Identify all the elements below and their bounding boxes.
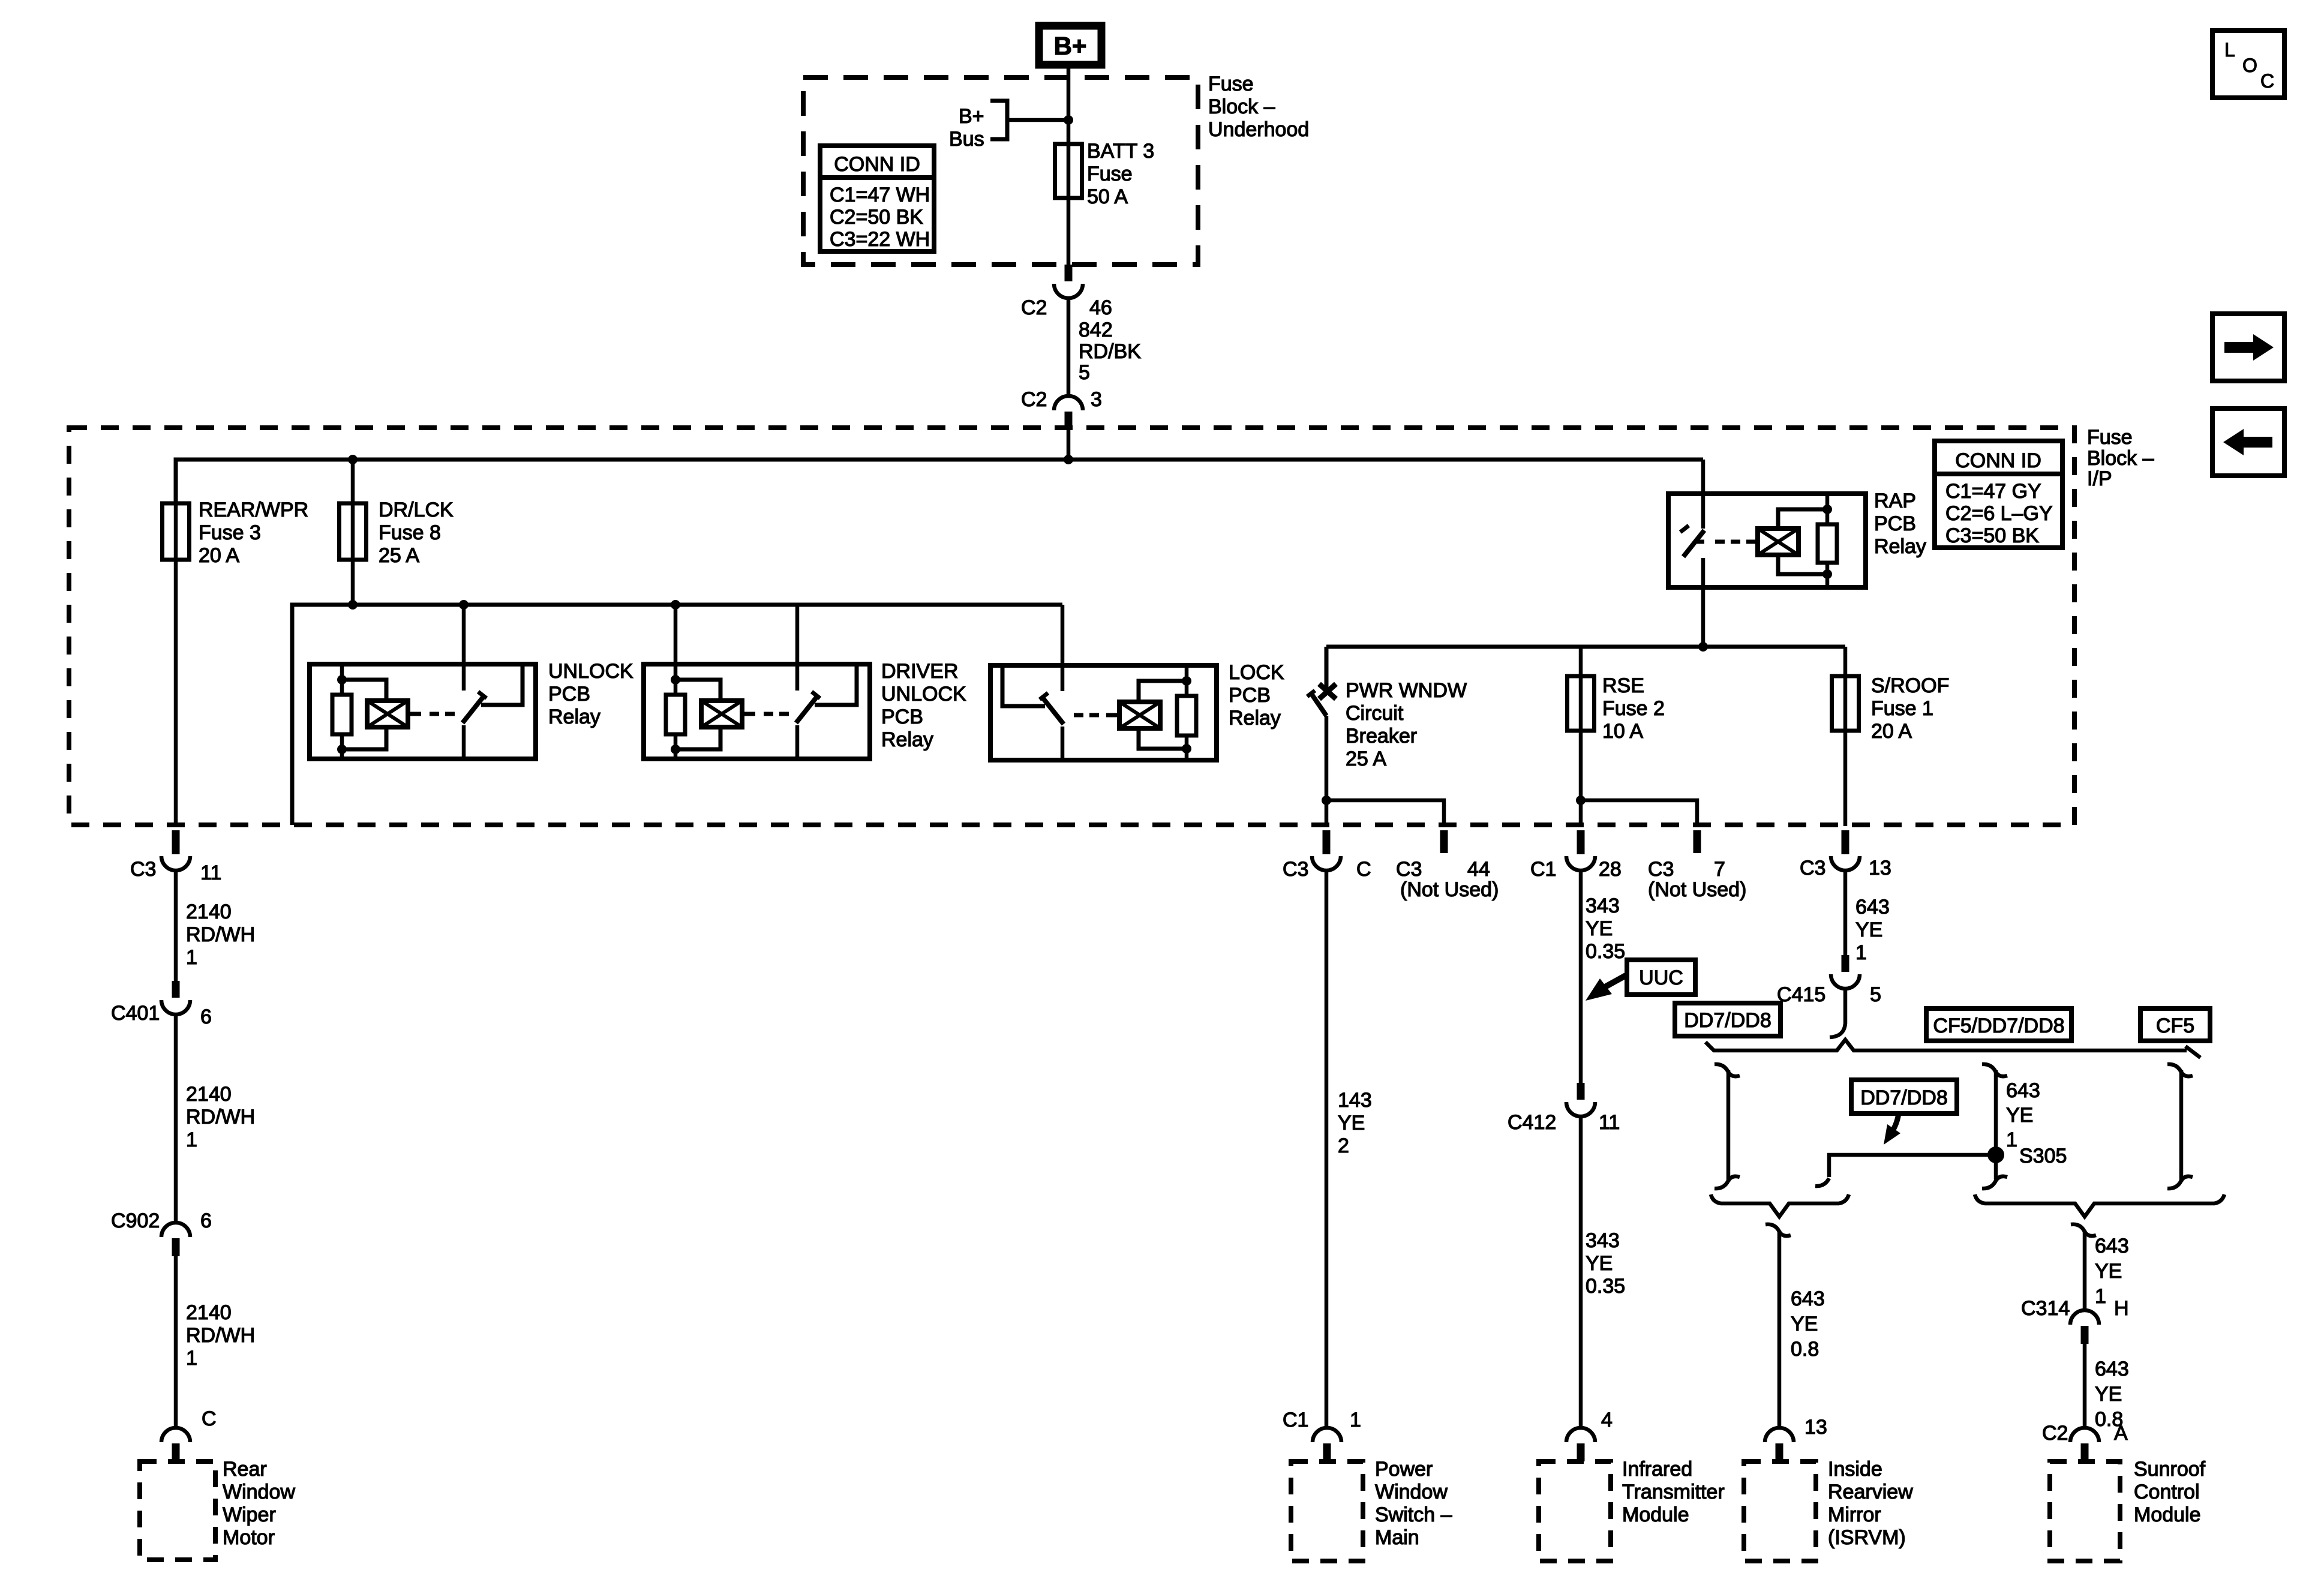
wire 143 YE 2	[1325, 870, 1329, 1428]
wire LOCK switch output to box edge	[1002, 668, 1045, 706]
svg-text:4: 4	[1601, 1409, 1613, 1431]
wire trunk into I/P bus	[1067, 428, 1071, 460]
wire 643 YE 1	[1843, 870, 1848, 955]
svg-text:C401: C401	[111, 1002, 160, 1025]
fuse block underhood dashed outline	[803, 77, 1198, 265]
connector C1 pin 1 (module cap + stub)	[1313, 1428, 1341, 1461]
mechanical link dashes LOCK	[1074, 713, 1083, 718]
wire UNLOCK resistor bottom	[340, 734, 344, 759]
svg-text:Window: Window	[223, 1481, 295, 1503]
svg-text:RSE: RSE	[1602, 674, 1644, 697]
connector C902 pin 6 (cap + stub)	[161, 1223, 190, 1256]
svg-text:0.35: 0.35	[1586, 940, 1625, 963]
splice S305	[1987, 1146, 2004, 1163]
connector pin 13 (module cap + stub)	[1765, 1428, 1794, 1461]
option tag DD7/DD8 left box	[1675, 1003, 1780, 1036]
svg-text:YE: YE	[2095, 1260, 2122, 1283]
svg-text:Module: Module	[1622, 1503, 1689, 1526]
svg-text:2140: 2140	[186, 1083, 232, 1106]
wire 643 YE 0.8 sunroof	[2083, 1344, 2087, 1428]
svg-text:28: 28	[1599, 858, 1622, 881]
fuse RSE Fuse 2 10A	[1568, 676, 1595, 731]
svg-text:PCB: PCB	[1229, 684, 1271, 707]
svg-text:2140: 2140	[186, 1301, 232, 1324]
svg-text:0.35: 0.35	[1586, 1275, 1625, 1298]
svg-text:Fuse 3: Fuse 3	[199, 521, 261, 544]
svg-text:Relay: Relay	[1229, 707, 1281, 730]
svg-text:CF5: CF5	[2156, 1014, 2194, 1037]
coil UNLOCK relay	[367, 701, 408, 727]
svg-text:BATT 3: BATT 3	[1087, 140, 1154, 163]
relay DRIVER UNLOCK box	[644, 664, 870, 759]
connector C2 pin 3 (female cap + male stub)	[1054, 396, 1083, 428]
svg-text:Fuse 8: Fuse 8	[379, 521, 441, 544]
svg-text:Fuse: Fuse	[1208, 73, 1254, 95]
node LOCK coil bottom	[1182, 744, 1191, 754]
svg-text:C1=47 GY: C1=47 GY	[1945, 480, 2041, 503]
svg-text:O: O	[2242, 55, 2257, 76]
svg-text:PCB: PCB	[1874, 512, 1916, 535]
connector C415 pin 5 (stub + cup)	[1831, 955, 1860, 989]
svg-text:Inside: Inside	[1828, 1458, 1882, 1481]
svg-text:Block –: Block –	[2087, 447, 2154, 470]
svg-text:Relay: Relay	[881, 728, 933, 751]
svg-text:643: 643	[2095, 1358, 2129, 1380]
svg-text:Fuse 1: Fuse 1	[1871, 697, 1933, 720]
svg-text:C2=50 BK: C2=50 BK	[830, 206, 923, 229]
svg-text:YE: YE	[1791, 1313, 1818, 1335]
svg-text:5: 5	[1079, 361, 1090, 384]
svg-text:DD7/DD8: DD7/DD8	[1860, 1086, 1947, 1109]
fuse S/ROOF Fuse 1 20A	[1832, 676, 1859, 731]
wire DRIVER UNLOCK resistor bottom	[674, 734, 678, 759]
svg-text:Bus: Bus	[949, 128, 984, 151]
svg-text:Rearview: Rearview	[1828, 1481, 1913, 1503]
svg-text:C1: C1	[1283, 1409, 1308, 1431]
svg-text:Fuse: Fuse	[1087, 163, 1133, 185]
svg-text:2: 2	[1338, 1134, 1349, 1157]
wire B+ box to BATT 3 fuse	[1067, 68, 1071, 265]
svg-text:1: 1	[186, 1347, 197, 1370]
option tag CF5/DD7/DD8 box	[1926, 1008, 2071, 1041]
wire 343 YE 0.35 lower	[1579, 1116, 1583, 1428]
connector C412 pin 11 (stub + cup)	[1566, 1083, 1595, 1116]
switch RAP relay	[1680, 460, 1704, 647]
svg-text:YE: YE	[1338, 1112, 1365, 1134]
svg-text:S/ROOF: S/ROOF	[1871, 674, 1949, 697]
resistor RAP relay	[1818, 524, 1837, 563]
svg-text:Relay: Relay	[548, 706, 600, 728]
svg-text:13: 13	[1869, 857, 1891, 879]
wire bus to RSE fuse	[1579, 647, 1583, 826]
connector C3 pin 11 cup	[161, 856, 190, 870]
wire UNLOCK coil bottom loop	[342, 727, 386, 749]
node RAP coil bottom	[1822, 569, 1832, 579]
connector C401 pin 6 (stub + cup)	[161, 981, 190, 1014]
node junction B+ bus / trunk	[1064, 115, 1073, 125]
node RAP output junction	[1698, 642, 1708, 652]
connector C2 pin A (module cap + stub)	[2070, 1428, 2099, 1461]
wire RAP coil top loop	[1778, 509, 1827, 529]
svg-text:UNLOCK: UNLOCK	[881, 683, 966, 706]
svg-text:C412: C412	[1508, 1111, 1556, 1134]
UUC arrow	[1586, 975, 1626, 1001]
svg-text:Wiper: Wiper	[223, 1503, 276, 1526]
svg-text:1: 1	[186, 1128, 197, 1151]
CONN ID table (underhood)	[820, 146, 934, 251]
svg-text:Breaker: Breaker	[1346, 725, 1417, 748]
svg-text:C: C	[202, 1407, 217, 1430]
option split top brace	[1706, 1040, 2200, 1058]
svg-text:50 A: 50 A	[1087, 185, 1128, 208]
wire 2140 RD/WH 1 first	[174, 870, 178, 981]
option tag CF5 box	[2140, 1008, 2210, 1041]
LOC legend box	[2212, 31, 2284, 98]
svg-text:Module: Module	[2134, 1503, 2201, 1526]
svg-text:Infrared: Infrared	[1622, 1458, 1692, 1481]
svg-text:643: 643	[1855, 896, 1890, 918]
connector C314 pin H (cap + stub)	[2070, 1310, 2099, 1344]
svg-text:7: 7	[1714, 858, 1725, 881]
wire branch to C3 44 not used	[1326, 800, 1444, 827]
DD7/DD8 callout arrow	[1884, 1113, 1900, 1145]
svg-text:Sunroof: Sunroof	[2134, 1458, 2206, 1481]
svg-text:11: 11	[200, 861, 221, 884]
svg-text:DR/LCK: DR/LCK	[379, 499, 454, 521]
switch LOCK relay	[1040, 605, 1064, 760]
svg-text:C3: C3	[1283, 858, 1308, 881]
svg-text:B+: B+	[959, 105, 984, 128]
svg-text:643: 643	[2095, 1235, 2129, 1257]
mechanical link dashes DRIVER UNLOCK	[764, 712, 773, 716]
svg-text:UNLOCK: UNLOCK	[548, 660, 633, 683]
connector C3 pin 13 cup	[1831, 856, 1860, 870]
node DR/LCK to relay bus	[348, 600, 358, 610]
Rear Window Wiper Motor module box	[140, 1461, 215, 1560]
svg-text:842: 842	[1079, 319, 1113, 341]
svg-text:Transmitter: Transmitter	[1622, 1481, 1725, 1503]
svg-text:CONN ID: CONN ID	[834, 153, 920, 176]
RAP output bus wire	[1326, 645, 1845, 649]
wire UNLOCK coil top loop	[342, 680, 386, 701]
Infrared Transmitter Module box	[1539, 1461, 1611, 1561]
svg-text:343: 343	[1586, 894, 1620, 917]
connector C1 pin 28 exit stub	[1577, 830, 1585, 854]
wire DRIVER UNLOCK switch output to box edge	[815, 667, 857, 705]
node DRIVER UNLOCK coil tap	[671, 600, 680, 610]
svg-text:YE: YE	[1586, 917, 1613, 940]
arrow previous page icon	[2212, 409, 2284, 476]
svg-text:RD/WH: RD/WH	[186, 1324, 255, 1347]
relay RAP box	[1668, 494, 1866, 587]
node RAP coil top	[1822, 505, 1832, 514]
wire S305 to left branch	[1815, 1155, 1996, 1186]
svg-text:RAP: RAP	[1874, 490, 1916, 512]
LOCK resistor feed from box top	[1185, 665, 1189, 696]
svg-text:Main: Main	[1375, 1526, 1419, 1549]
fuse DR/LCK Fuse 8 25A	[340, 503, 367, 560]
wire RAP coil armature lead	[1746, 540, 1758, 544]
svg-text:DRIVER: DRIVER	[881, 660, 958, 683]
svg-text:C1: C1	[1530, 858, 1556, 881]
wire UNLOCK switch output to box edge	[481, 667, 523, 705]
svg-text:25 A: 25 A	[379, 544, 419, 567]
wire LOCK coil bottom loop	[1139, 728, 1187, 749]
svg-text:C2=6 L–GY: C2=6 L–GY	[1945, 502, 2053, 525]
svg-text:I/P: I/P	[2087, 467, 2112, 490]
svg-text:C3: C3	[1396, 858, 1422, 881]
option branch middle vertical 643 YE 1	[1982, 1064, 2007, 1188]
resistor UNLOCK relay	[332, 695, 352, 734]
circuit breaker PWR WNDW 25A	[1307, 647, 1336, 826]
svg-text:643: 643	[2006, 1079, 2040, 1102]
svg-text:C3: C3	[1648, 858, 1674, 881]
svg-text:C902: C902	[111, 1209, 160, 1232]
node PWR WNDW branch	[1322, 795, 1331, 805]
wire LOCK resistor bottom	[1185, 736, 1189, 760]
svg-text:5: 5	[1870, 983, 1881, 1006]
svg-text:(ISRVM): (ISRVM)	[1828, 1526, 1906, 1549]
svg-text:H: H	[2114, 1297, 2129, 1320]
coil RAP relay	[1758, 529, 1798, 555]
pin C3 44 not used stub	[1440, 830, 1448, 853]
connector C3 pin C cup	[1312, 856, 1341, 870]
connector C2 pin 46 (male stub + female cup)	[1054, 265, 1083, 298]
wire DR/LCK fuse feed	[351, 460, 355, 605]
wire 2140 RD/WH 1 third	[174, 1256, 178, 1428]
node DRIVER UNLOCK coil bottom	[671, 745, 680, 754]
svg-text:C3: C3	[1800, 857, 1825, 879]
svg-text:46: 46	[1089, 296, 1112, 319]
svg-text:C2: C2	[2042, 1422, 2068, 1445]
Inside Rearview Mirror module box	[1744, 1461, 1816, 1561]
wire REAR/WPR fuse to block exit	[174, 460, 178, 826]
svg-text:C3: C3	[130, 858, 156, 881]
svg-text:13: 13	[1804, 1416, 1827, 1439]
svg-text:44: 44	[1467, 858, 1490, 881]
svg-text:A: A	[2114, 1422, 2128, 1445]
svg-text:11: 11	[1599, 1111, 1620, 1134]
svg-text:Relay: Relay	[1874, 535, 1926, 558]
DRIVER UNLOCK coil feed from bus	[674, 605, 678, 695]
mechanical link dashes RAP	[1694, 540, 1704, 544]
svg-text:1: 1	[1350, 1409, 1361, 1431]
connector pin 4 (module cap + stub)	[1566, 1428, 1595, 1461]
svg-text:PWR WNDW: PWR WNDW	[1346, 679, 1467, 702]
node DR/LCK fuse tap	[348, 455, 358, 464]
fuse BATT 3 50A	[1055, 144, 1082, 198]
relay feed bus	[292, 605, 1062, 825]
svg-text:C2: C2	[1021, 388, 1047, 411]
svg-text:(Not Used): (Not Used)	[1648, 878, 1746, 901]
svg-text:LOCK: LOCK	[1229, 661, 1284, 684]
B+ Bus bracket	[990, 101, 1007, 139]
UUC callout box	[1627, 960, 1695, 995]
connector pin C (module cap + stub)	[161, 1428, 190, 1461]
svg-text:PCB: PCB	[548, 683, 590, 706]
RAP resistor feed from box top	[1825, 494, 1830, 524]
svg-text:3: 3	[1091, 388, 1102, 411]
svg-text:CONN ID: CONN ID	[1955, 449, 2041, 472]
svg-text:C: C	[2260, 70, 2274, 92]
svg-text:25 A: 25 A	[1346, 748, 1386, 770]
coil DRIVER UNLOCK relay	[701, 701, 742, 727]
svg-text:RD/BK: RD/BK	[1079, 340, 1141, 363]
svg-text:C1=47 WH: C1=47 WH	[830, 184, 930, 206]
svg-text:B+: B+	[1054, 32, 1087, 60]
wire DRIVER UNLOCK coil armature lead	[742, 712, 755, 716]
wire LOCK coil armature lead	[1106, 713, 1119, 718]
svg-text:DD7/DD8: DD7/DD8	[1684, 1009, 1771, 1032]
svg-text:Fuse 2: Fuse 2	[1602, 697, 1665, 720]
wire 842 RD/BK 5	[1067, 298, 1071, 396]
switch UNLOCK relay	[463, 605, 487, 759]
mechanical link dashes UNLOCK	[430, 712, 439, 716]
node UNLOCK coil top	[337, 675, 347, 685]
svg-text:343: 343	[1586, 1229, 1620, 1252]
svg-text:20 A: 20 A	[199, 544, 239, 567]
svg-text:20 A: 20 A	[1871, 720, 1912, 743]
svg-text:PCB: PCB	[881, 706, 923, 728]
fuse REAR/WPR Fuse 3 20A	[163, 503, 190, 560]
svg-text:(Not Used): (Not Used)	[1400, 878, 1499, 901]
svg-text:Underhood: Underhood	[1208, 118, 1309, 141]
arrow next page icon	[2212, 314, 2284, 381]
wire bus to S/ROOF fuse	[1843, 647, 1848, 826]
wire DRIVER UNLOCK coil bottom loop	[675, 727, 720, 749]
svg-text:C314: C314	[2021, 1297, 2070, 1320]
svg-text:C415: C415	[1777, 983, 1825, 1006]
UNLOCK coil feed from box top	[340, 664, 344, 695]
svg-text:C3=22 WH: C3=22 WH	[830, 228, 930, 251]
Sunroof Control Module box	[2050, 1461, 2120, 1561]
CONN ID table (I/P)	[1935, 441, 2062, 548]
svg-text:Mirror: Mirror	[1828, 1503, 1881, 1526]
wire RAP resistor bottom	[1825, 563, 1830, 587]
relay UNLOCK box	[310, 664, 536, 759]
svg-text:YE: YE	[1586, 1252, 1613, 1275]
connector C3 pin C exit stub	[1323, 830, 1331, 854]
svg-text:YE: YE	[2006, 1104, 2033, 1127]
option collect brace right	[1975, 1194, 2224, 1217]
svg-text:1: 1	[186, 946, 197, 969]
svg-text:6: 6	[200, 1209, 212, 1232]
node LOCK coil top	[1182, 676, 1191, 686]
svg-text:C2: C2	[1021, 296, 1047, 319]
option tag DD7/DD8 callout box	[1851, 1080, 1957, 1113]
pin C3 7 not used stub	[1694, 830, 1701, 853]
resistor DRIVER UNLOCK relay	[666, 695, 685, 734]
svg-text:UUC: UUC	[1639, 966, 1683, 989]
svg-text:L: L	[2224, 39, 2235, 61]
svg-text:Switch –: Switch –	[1375, 1503, 1452, 1526]
main I/P bus wire	[176, 460, 1703, 502]
B+ power symbol box	[1039, 26, 1101, 65]
wire 343 YE 0.35 upper	[1579, 870, 1583, 1083]
node UNLOCK switch tap	[459, 600, 469, 610]
svg-text:C3=50 BK: C3=50 BK	[1945, 524, 2039, 547]
coil LOCK relay	[1119, 702, 1160, 728]
svg-text:6: 6	[200, 1005, 212, 1028]
option collect brace left	[1711, 1194, 1849, 1217]
svg-text:YE: YE	[2095, 1383, 2122, 1406]
svg-text:Window: Window	[1375, 1481, 1448, 1503]
node DRIVER UNLOCK coil top	[671, 675, 680, 685]
svg-text:Motor: Motor	[223, 1526, 275, 1549]
resistor LOCK relay	[1177, 696, 1196, 736]
svg-text:RD/WH: RD/WH	[186, 1106, 255, 1128]
node trunk/bus junction	[1064, 455, 1073, 464]
svg-text:643: 643	[1791, 1287, 1825, 1310]
wire 643 YE 0.8 to ISRVM	[1765, 1224, 1791, 1236]
wire C415 to option split hook	[1830, 989, 1845, 1037]
wire 2140 RD/WH 1 second	[174, 1014, 178, 1223]
svg-text:Control: Control	[2134, 1481, 2200, 1503]
svg-text:Block –: Block –	[1208, 95, 1275, 118]
svg-text:0.8: 0.8	[1791, 1338, 1819, 1361]
svg-text:1: 1	[2095, 1285, 2106, 1308]
wire RAP coil bottom loop	[1778, 555, 1827, 574]
svg-text:C: C	[1356, 858, 1371, 881]
connector C3 pin 13 exit stub	[1842, 830, 1849, 854]
Power Window Switch module box	[1291, 1461, 1363, 1561]
option branch bracket right (CF5 path)	[2167, 1064, 2193, 1188]
svg-text:Rear: Rear	[223, 1458, 267, 1481]
svg-text:YE: YE	[1855, 918, 1882, 941]
wire branch to C3 7 not used	[1581, 800, 1697, 827]
option branch bracket left (DD7/DD8 path)	[1715, 1064, 1740, 1188]
wire UNLOCK coil armature lead	[408, 712, 421, 716]
wire 643 YE 1 to C314	[2071, 1224, 2096, 1236]
wire B+ Bus bracket to trunk	[1007, 118, 1068, 122]
svg-text:1: 1	[1855, 941, 1867, 964]
svg-text:CF5/DD7/DD8: CF5/DD7/DD8	[1933, 1014, 2064, 1037]
wire DRIVER UNLOCK coil top loop	[675, 680, 720, 701]
svg-text:S305: S305	[2019, 1145, 2067, 1167]
node UNLOCK coil bottom	[337, 745, 347, 754]
svg-text:Fuse: Fuse	[2087, 426, 2133, 449]
connector C1 pin 28 cup	[1566, 856, 1595, 870]
wire LOCK coil top loop	[1139, 681, 1187, 702]
svg-text:1: 1	[2006, 1128, 2017, 1151]
svg-text:REAR/WPR: REAR/WPR	[199, 499, 308, 521]
svg-text:10 A: 10 A	[1602, 720, 1643, 743]
svg-text:143: 143	[1338, 1089, 1372, 1112]
svg-text:2140: 2140	[186, 900, 232, 923]
svg-text:Power: Power	[1375, 1458, 1433, 1481]
connector C3 pin 11 exit stub	[172, 830, 180, 854]
relay LOCK box	[990, 665, 1217, 760]
node RSE branch	[1576, 795, 1586, 805]
svg-text:Circuit: Circuit	[1346, 702, 1404, 725]
svg-text:RD/WH: RD/WH	[186, 923, 255, 946]
switch DRIVER UNLOCK relay	[796, 605, 820, 759]
